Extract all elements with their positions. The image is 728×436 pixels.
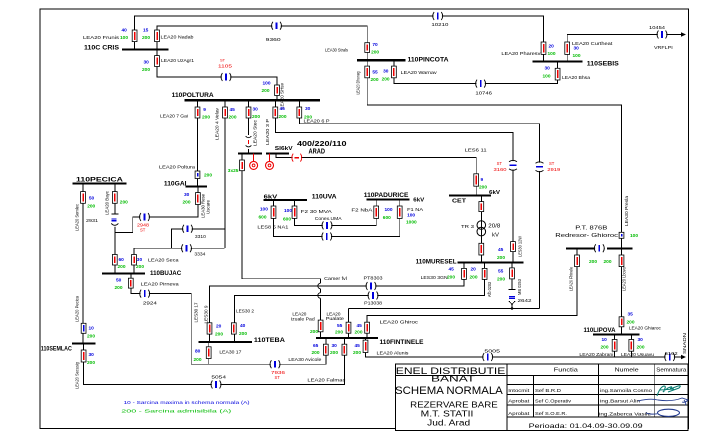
svg-text:30: 30 <box>305 106 311 112</box>
svg-text:100: 100 <box>543 74 551 80</box>
svg-text:110SEMLAC: 110SEMLAC <box>41 346 72 353</box>
svg-text:200: 200 <box>627 320 635 326</box>
svg-text:LEA20 Pirneva: LEA20 Pirneva <box>141 282 180 287</box>
svg-text:200: 200 <box>497 255 505 261</box>
svg-text:20: 20 <box>216 324 222 330</box>
svg-text:5054: 5054 <box>211 375 226 380</box>
svg-text:ing.Zaberca Vasile: ing.Zaberca Vasile <box>599 411 652 416</box>
svg-text:110SEBIS: 110SEBIS <box>587 60 619 67</box>
svg-text:LEA20 Bayc: LEA20 Bayc <box>105 190 110 215</box>
svg-text:45: 45 <box>355 343 361 349</box>
svg-text:20: 20 <box>471 267 477 273</box>
svg-text:LEA20 Seca: LEA20 Seca <box>148 258 179 263</box>
svg-text:Functia: Functia <box>554 367 578 373</box>
svg-text:LEA20 7 Gai: LEA20 7 Gai <box>160 114 188 119</box>
svg-text:BANAT: BANAT <box>431 375 475 384</box>
svg-text:10746: 10746 <box>475 91 492 96</box>
svg-text:Redresor- Ghioroc: Redresor- Ghioroc <box>555 233 618 239</box>
svg-text:Sef B.R.D: Sef B.R.D <box>535 388 561 393</box>
svg-text:200: 200 <box>310 329 318 335</box>
svg-text:600: 600 <box>383 215 391 221</box>
svg-text:80: 80 <box>195 349 201 355</box>
svg-text:110FINTINELE: 110FINTINELE <box>380 340 424 346</box>
svg-text:200: 200 <box>229 115 237 121</box>
svg-text:LEA30 Strals: LEA30 Strals <box>325 48 349 53</box>
svg-text:200: 200 <box>371 50 379 56</box>
svg-text:LEA20 Poltura: LEA20 Poltura <box>159 165 196 170</box>
svg-text:TR 3: TR 3 <box>461 224 475 229</box>
svg-text:kV: kV <box>492 233 499 239</box>
svg-text:LEA20 Bhsa: LEA20 Bhsa <box>562 75 590 80</box>
svg-text:55: 55 <box>498 269 504 275</box>
svg-text:30: 30 <box>253 107 259 113</box>
svg-text:Intocmit: Intocmit <box>508 388 530 393</box>
svg-text:110MURESEL: 110MURESEL <box>416 259 457 266</box>
svg-text:LEA20 Usuavu: LEA20 Usuavu <box>621 352 654 357</box>
svg-text:100: 100 <box>407 213 415 219</box>
svg-text:30: 30 <box>383 69 389 75</box>
svg-text:30: 30 <box>638 337 644 343</box>
svg-text:45: 45 <box>357 323 363 329</box>
svg-text:Izuale Pad: Izuale Pad <box>291 317 316 322</box>
svg-text:LEA20 Pharesv: LEA20 Pharesv <box>501 51 541 56</box>
svg-text:200: 200 <box>194 357 202 363</box>
svg-text:110LIPOVA: 110LIPOVA <box>584 328 617 334</box>
svg-text:40: 40 <box>122 28 128 34</box>
svg-text:30: 30 <box>89 352 95 358</box>
svg-text:110PECICA: 110PECICA <box>76 177 124 184</box>
svg-text:110GAI: 110GAI <box>164 181 187 187</box>
svg-text:50: 50 <box>116 278 122 284</box>
svg-text:LEA20 4 Velav: LEA20 4 Velav <box>215 107 220 140</box>
svg-text:LES30 3GN: LES30 3GN <box>421 275 448 280</box>
svg-text:Sef C.Operativ: Sef C.Operativ <box>535 398 572 403</box>
svg-text:110TEBA: 110TEBA <box>254 337 286 344</box>
svg-text:100: 100 <box>284 208 292 214</box>
svg-text:Pualate: Pualate <box>326 316 345 321</box>
svg-text:200: 200 <box>353 350 361 356</box>
svg-text:200: 200 <box>183 200 191 206</box>
svg-text:ST: ST <box>549 161 555 166</box>
svg-text:200: 200 <box>637 345 645 351</box>
svg-text:55: 55 <box>337 323 343 329</box>
svg-text:MB 0253: MB 0253 <box>517 278 522 295</box>
svg-text:3334: 3334 <box>194 252 205 257</box>
svg-text:45: 45 <box>498 247 504 253</box>
svg-text:200: 200 <box>447 275 455 281</box>
svg-text:Numele: Numele <box>615 367 639 373</box>
svg-text:P13038: P13038 <box>364 301 382 306</box>
svg-text:30: 30 <box>574 46 580 52</box>
svg-text:10: 10 <box>602 337 608 343</box>
svg-text:2931: 2931 <box>86 218 99 223</box>
svg-text:600: 600 <box>259 215 267 221</box>
svg-text:200: 200 <box>118 264 126 270</box>
svg-text:3310: 3310 <box>195 234 206 239</box>
svg-text:110POLTURA: 110POLTURA <box>172 92 215 99</box>
svg-text:45: 45 <box>449 267 455 273</box>
svg-text:100: 100 <box>263 81 271 87</box>
svg-text:6162: 6162 <box>665 351 679 356</box>
svg-text:M.T. STATII: M.T. STATII <box>421 410 474 419</box>
svg-text:Camer fvl: Camer fvl <box>324 276 347 281</box>
svg-text:110BUJAC: 110BUJAC <box>150 270 182 277</box>
svg-text:Afb 0203: Afb 0203 <box>487 282 492 297</box>
svg-text:200: 200 <box>589 259 597 265</box>
svg-text:200: 200 <box>371 77 379 83</box>
svg-text:LEA20 Frunis: LEA20 Frunis <box>83 35 120 40</box>
svg-text:3x25: 3x25 <box>228 168 239 174</box>
svg-text:1105: 1105 <box>218 64 232 70</box>
svg-text:30: 30 <box>184 192 190 198</box>
svg-text:LEA20 Fhinele: LEA20 Fhinele <box>569 267 574 291</box>
svg-text:200: 200 <box>142 35 150 41</box>
svg-text:200: 200 <box>470 275 478 281</box>
svg-text:100: 100 <box>120 35 128 41</box>
svg-text:LES8 5 NA1: LES8 5 NA1 <box>257 224 289 229</box>
svg-text:200: 200 <box>87 203 95 209</box>
svg-text:200: 200 <box>87 334 95 340</box>
svg-text:LEA20 Falmac: LEA20 Falmac <box>307 378 346 383</box>
svg-text:ST: ST <box>140 228 146 233</box>
svg-text:10 - Sarcina maxima in schem: 10 - Sarcina maxima in schema normala (A… <box>124 400 251 406</box>
svg-text:LEA20 Warnav: LEA20 Warnav <box>401 70 438 75</box>
svg-text:200: 200 <box>382 77 390 83</box>
svg-text:110UVA: 110UVA <box>312 194 337 201</box>
svg-text:6kV: 6kV <box>413 198 424 204</box>
svg-text:200: 200 <box>262 88 270 94</box>
svg-text:ST: ST <box>275 375 281 380</box>
svg-text:LEA20 Ghiroc: LEA20 Ghiroc <box>380 320 419 325</box>
svg-text:LES30 2: LES30 2 <box>236 309 254 314</box>
svg-text:LEA30 Presla: LEA30 Presla <box>624 195 629 226</box>
svg-text:110PADURICE: 110PADURICE <box>364 192 409 199</box>
svg-text:200: 200 <box>497 277 505 283</box>
svg-text:200: 200 <box>115 285 123 291</box>
svg-text:LEA20 Zabrani: LEA20 Zabrani <box>579 352 613 357</box>
svg-text:ing.Barsut Alin: ing.Barsut Alin <box>600 398 641 403</box>
svg-text:Semnatura: Semnatura <box>656 367 686 373</box>
svg-text:LES6 11: LES6 11 <box>465 148 488 153</box>
svg-text:200: 200 <box>87 360 95 366</box>
svg-text:100: 100 <box>630 233 638 239</box>
svg-text:VRFLPI: VRFLPI <box>654 45 673 50</box>
svg-text:200: 200 <box>239 331 247 337</box>
svg-text:REZERVARE BARE: REZERVARE BARE <box>410 400 498 409</box>
svg-text:Aprobat: Aprobat <box>508 398 530 403</box>
svg-text:P.T. 876B: P.T. 876B <box>575 226 608 232</box>
svg-text:35: 35 <box>628 312 634 318</box>
svg-text:LES30 17: LES30 17 <box>194 302 199 323</box>
svg-text:LEA20 Nadab: LEA20 Nadab <box>161 35 195 40</box>
svg-text:10: 10 <box>89 326 95 332</box>
svg-text:LEA20 3 P: LEA20 3 P <box>265 119 270 145</box>
svg-text:Perioada: 01.04.09-30.09.09: Perioada: 01.04.09-30.09.09 <box>529 423 644 430</box>
svg-text:200: 200 <box>204 173 212 179</box>
svg-text:ing.Samoila Cosmo: ing.Samoila Cosmo <box>600 388 653 393</box>
svg-text:Conex.UMA: Conex.UMA <box>315 216 343 221</box>
svg-text:ST: ST <box>220 58 226 63</box>
svg-text:200: 200 <box>479 185 487 191</box>
svg-text:200: 200 <box>136 264 144 270</box>
svg-text:200: 200 <box>355 329 363 335</box>
svg-text:LEA20 Dhoneg: LEA20 Dhoneg <box>356 71 361 94</box>
svg-text:LEA30 17: LEA30 17 <box>219 350 241 355</box>
svg-text:200: 200 <box>312 350 320 356</box>
svg-text:6kV: 6kV <box>264 195 278 201</box>
svg-text:LEA20 Semlec: LEA20 Semlec <box>75 203 80 231</box>
svg-text:ST: ST <box>497 161 503 166</box>
svg-text:PT8303: PT8303 <box>364 276 384 281</box>
svg-text:45: 45 <box>230 107 236 113</box>
svg-text:110PINCOTA: 110PINCOTA <box>408 57 450 64</box>
svg-text:200: 200 <box>330 350 338 356</box>
svg-text:20/8: 20/8 <box>488 224 500 230</box>
svg-text:200: 200 <box>142 67 150 73</box>
svg-text:200: 200 <box>252 114 260 120</box>
svg-text:10454: 10454 <box>649 25 666 30</box>
svg-text:2919: 2919 <box>547 167 560 173</box>
svg-text:2924: 2924 <box>143 301 158 306</box>
svg-text:ARAD: ARAD <box>309 149 326 156</box>
svg-text:200: 200 <box>604 259 612 265</box>
svg-text:SI6kV: SI6kV <box>275 146 293 152</box>
svg-text:LES30 12W: LES30 12W <box>518 235 523 257</box>
svg-text:3160: 3160 <box>494 167 507 173</box>
svg-text:SCHEMA NORMALA: SCHEMA NORMALA <box>395 385 503 397</box>
svg-text:200: 200 <box>215 332 223 338</box>
svg-text:70: 70 <box>372 42 378 48</box>
svg-text:55: 55 <box>372 70 378 76</box>
svg-text:400/220/110: 400/220/110 <box>297 139 347 148</box>
svg-text:200: 200 <box>120 200 128 206</box>
svg-text:SNADN: SNADN <box>682 333 687 354</box>
svg-text:45: 45 <box>280 106 286 112</box>
svg-text:1000: 1000 <box>406 220 417 226</box>
svg-text:LES30 9: LES30 9 <box>204 305 209 324</box>
svg-text:110C CRIS: 110C CRIS <box>84 45 119 52</box>
svg-text:30: 30 <box>144 60 150 66</box>
svg-text:15: 15 <box>143 28 149 34</box>
svg-text:LEA20 Curtheat: LEA20 Curtheat <box>572 41 613 46</box>
svg-text:5005: 5005 <box>484 349 500 354</box>
svg-text:100: 100 <box>385 207 393 213</box>
svg-text:F2 NbA: F2 NbA <box>351 208 373 213</box>
svg-text:Jud. Arad: Jud. Arad <box>427 418 470 427</box>
svg-text:LEA20 Alunis: LEA20 Alunis <box>377 351 410 356</box>
svg-text:20: 20 <box>549 44 555 50</box>
svg-text:10210: 10210 <box>431 22 449 27</box>
svg-text:LEA20 Stec: LEA20 Stec <box>253 119 258 146</box>
svg-text:F2 30 MVA: F2 30 MVA <box>301 209 333 214</box>
svg-text:9360: 9360 <box>266 37 282 42</box>
svg-text:LEA20 Secusig: LEA20 Secusig <box>75 362 80 389</box>
svg-text:Sef S.O.E.R.: Sef S.O.E.R. <box>535 411 567 416</box>
svg-text:100: 100 <box>260 207 268 213</box>
svg-text:CET: CET <box>452 199 467 205</box>
svg-text:50: 50 <box>89 196 95 202</box>
svg-text:F1 NA: F1 NA <box>407 207 424 212</box>
svg-text:200: 200 <box>202 115 210 121</box>
svg-text:LEA20 Ghiaroc: LEA20 Ghiaroc <box>629 326 662 331</box>
svg-text:LEA20 Lbovo: LEA20 Lbovo <box>622 267 627 291</box>
svg-text:100: 100 <box>548 51 556 57</box>
svg-text:6kV: 6kV <box>489 190 500 196</box>
svg-text:200: 200 <box>279 114 287 120</box>
svg-text:200: 200 <box>335 329 343 335</box>
svg-text:Uscare: Uscare <box>206 199 211 214</box>
svg-text:200 - Sarcina admisibila (A): 200 - Sarcina admisibila (A) <box>121 409 232 415</box>
svg-text:200: 200 <box>601 345 609 351</box>
svg-text:100: 100 <box>573 53 581 59</box>
svg-text:LEA20 Pecica: LEA20 Pecica <box>75 295 80 322</box>
svg-text:2642: 2642 <box>518 298 533 303</box>
svg-text:30: 30 <box>545 66 551 72</box>
svg-text:65: 65 <box>313 343 319 349</box>
svg-text:Aprobat: Aprobat <box>508 411 530 416</box>
svg-text:LEA20 SHsv: LEA20 SHsv <box>280 82 285 109</box>
svg-text:200: 200 <box>304 115 312 121</box>
svg-text:40: 40 <box>240 323 246 329</box>
svg-text:9: 9 <box>481 177 484 183</box>
svg-text:60: 60 <box>119 257 125 263</box>
svg-text:600: 600 <box>283 217 291 223</box>
svg-text:30: 30 <box>137 257 143 263</box>
svg-text:9: 9 <box>203 107 206 113</box>
svg-text:LEA30 Avicole: LEA30 Avicole <box>288 357 321 362</box>
svg-text:30: 30 <box>332 343 338 349</box>
svg-text:LEA20 UzAgr1: LEA20 UzAgr1 <box>161 58 194 63</box>
